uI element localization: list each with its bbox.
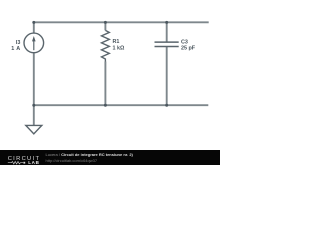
wire R1 top lead <box>104 22 106 31</box>
node top C3 junction <box>165 21 168 24</box>
CircuitLab logo <box>8 156 41 165</box>
footer url text <box>46 159 98 163</box>
current source I3 <box>24 33 44 53</box>
svg-text:1 kΩ: 1 kΩ <box>113 46 125 52</box>
ground <box>26 125 42 133</box>
wire bottom rail <box>33 104 208 106</box>
wire ground lead <box>33 105 35 125</box>
node top R1 junction <box>104 21 107 24</box>
svg-text:1 A: 1 A <box>11 46 20 52</box>
wire current source top lead <box>33 22 35 34</box>
footer bar <box>0 150 220 165</box>
node bottom C3 junction <box>165 104 168 107</box>
capacitor C3 <box>155 42 179 46</box>
wire R1 bottom lead <box>104 62 106 106</box>
svg-text:R1: R1 <box>113 39 120 45</box>
node top-left junction <box>32 21 35 24</box>
svg-text:LAB: LAB <box>28 160 39 165</box>
wire C3 bottom lead <box>166 47 168 106</box>
resistor R1 <box>102 30 110 61</box>
node bottom R1 junction <box>104 104 107 107</box>
wire C3 top lead <box>166 22 168 43</box>
wire top rail <box>33 21 209 23</box>
svg-text:25 pF: 25 pF <box>181 46 196 52</box>
wire current source bottom lead <box>33 53 35 106</box>
footer title text <box>46 153 133 157</box>
node bottom-left junction <box>32 104 35 107</box>
